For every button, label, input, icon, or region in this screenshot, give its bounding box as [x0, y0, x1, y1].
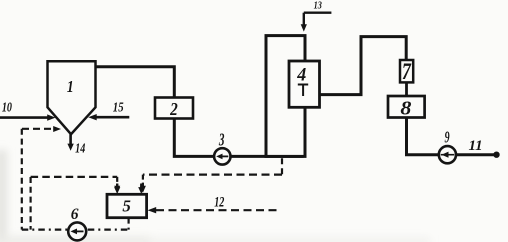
svg-text:14: 14 [75, 140, 85, 156]
svg-text:5: 5 [122, 196, 131, 215]
svg-text:3: 3 [218, 131, 225, 150]
svg-text:4: 4 [296, 64, 306, 86]
svg-text:1: 1 [67, 78, 74, 97]
svg-text:13: 13 [314, 0, 322, 12]
svg-text:15: 15 [113, 99, 124, 114]
svg-text:10: 10 [2, 99, 12, 115]
svg-text:12: 12 [214, 194, 224, 210]
svg-text:6: 6 [71, 206, 79, 223]
svg-text:8: 8 [400, 96, 412, 119]
svg-text:2: 2 [169, 99, 178, 119]
svg-text:11: 11 [469, 138, 483, 154]
svg-text:7: 7 [402, 60, 412, 85]
svg-text:9: 9 [445, 128, 450, 146]
